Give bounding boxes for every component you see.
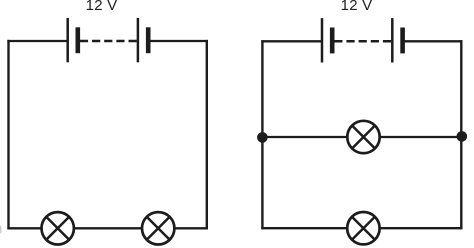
wire right side (right circuit) [460,40,462,229]
battery B2 cell1 positive plate (long line) [321,18,324,62]
svg-text:12 V: 12 V [341,0,373,14]
wire top-left (left circuit) [7,40,67,42]
wire top-right (left circuit) [148,40,208,42]
svg-text:12 V: 12 V [86,0,118,14]
wire left side (right circuit) [261,40,263,229]
junction node (right, middle branch) [457,131,468,142]
battery B1 cell1 negative plate (short thick line) [76,27,81,53]
wire left side (left circuit) [7,40,9,230]
page-edge remnant mark [0,226,2,234]
battery B2 cell2 negative plate (short thick line) [400,28,405,54]
lamp L3 (middle branch) [347,121,379,153]
battery B1 cell2 negative plate (short thick line) [146,27,151,53]
wire middle branch (right circuit) [262,136,461,138]
junction node (left, middle branch) [257,132,268,143]
battery B2 cell2 positive plate (long line) [391,18,394,62]
wire bottom (right circuit) [261,227,462,229]
wire dashed link between cells of B1 [80,40,137,43]
lamp L1 [42,212,74,244]
battery B2 value label 12V [341,0,373,14]
wire bottom (left circuit) [7,227,208,229]
wire right side (left circuit) [206,40,208,230]
battery B1 value label 12V [86,0,118,14]
wire top-right (right circuit) [403,40,463,42]
battery B1 cell1 positive plate (long line) [66,18,69,62]
wire dashed link between cells of B2 [334,40,391,43]
lamp L4 (bottom) [347,212,379,244]
battery B1 cell2 positive plate (long line) [137,18,140,62]
lamp L2 [142,212,174,244]
battery B2 cell1 negative plate (short thick line) [330,28,335,54]
wire top-left (right circuit) [261,40,322,42]
